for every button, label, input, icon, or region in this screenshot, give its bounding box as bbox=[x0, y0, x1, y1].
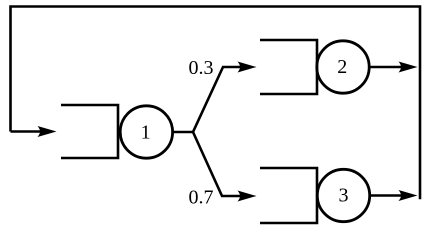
queue Q2 bbox=[260, 40, 317, 94]
wire branch up diagonal bbox=[193, 67, 223, 132]
queue Q3 bbox=[260, 168, 317, 223]
server circle 1 bbox=[120, 106, 172, 158]
svg-text:2: 2 bbox=[337, 56, 347, 78]
wire arrow into queue 1 bbox=[11, 130, 44, 133]
wire arrow into queue 2 bbox=[222, 66, 243, 69]
svg-text:0.7: 0.7 bbox=[189, 187, 214, 209]
server circle 2 bbox=[317, 41, 369, 93]
server circle 3 bbox=[317, 169, 369, 221]
wire node1 to split bbox=[173, 131, 193, 134]
svg-text:1: 1 bbox=[141, 121, 151, 143]
svg-text:3: 3 bbox=[339, 185, 349, 207]
wire arrow node3 to right bus bbox=[370, 194, 404, 197]
svg-text:0.3: 0.3 bbox=[189, 57, 214, 79]
wire branch down diagonal bbox=[193, 132, 222, 196]
wire feedback top bbox=[11, 7, 421, 200]
wire arrow node2 to right bus bbox=[369, 66, 404, 69]
wire arrow into queue 3 bbox=[221, 195, 243, 198]
queue Q1 bbox=[61, 105, 118, 158]
